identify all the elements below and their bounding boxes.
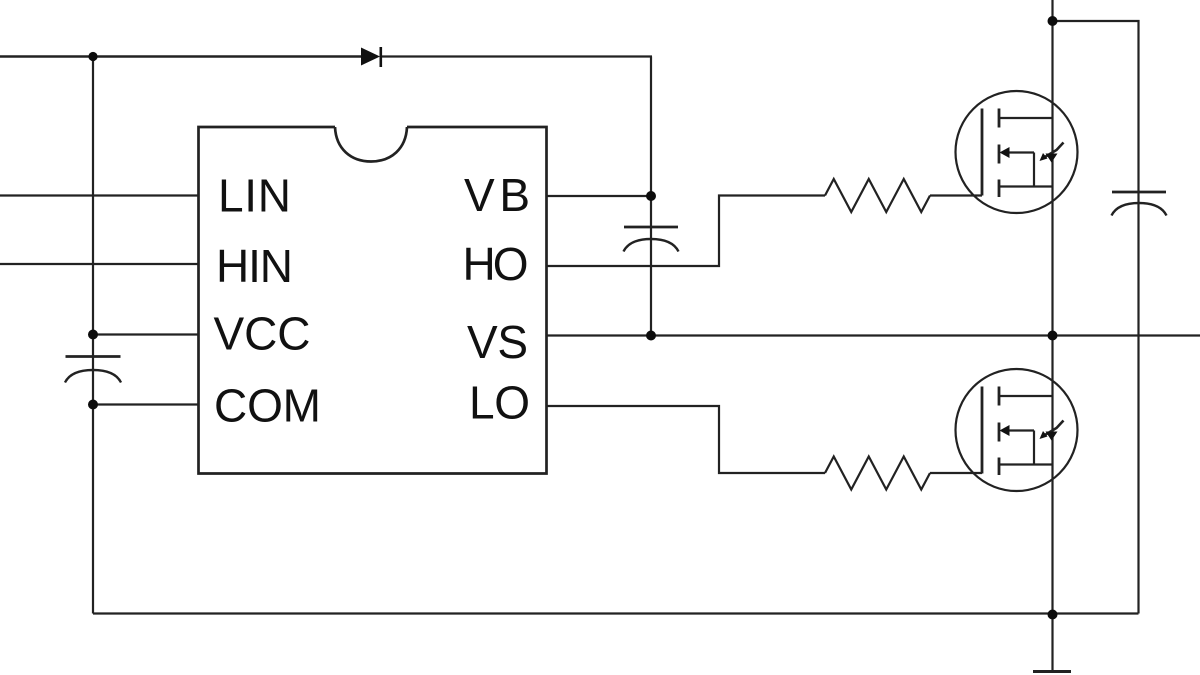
svg-text:LO: LO xyxy=(469,377,530,429)
svg-text:COM: COM xyxy=(214,380,321,432)
svg-text:HO: HO xyxy=(463,238,529,290)
svg-text:VS: VS xyxy=(467,316,528,368)
svg-text:LIN: LIN xyxy=(218,170,291,222)
svg-text:HIN: HIN xyxy=(216,240,293,292)
svg-text:VCC: VCC xyxy=(214,308,311,360)
